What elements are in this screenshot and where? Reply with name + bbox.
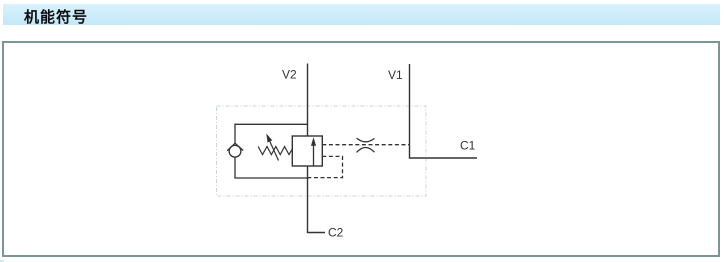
wire check-valve branch left lower [234,157,236,178]
enclosure (dash-dot assembly boundary) [217,106,427,196]
wire V2 lower to C2 elbow [308,166,326,233]
spring (adjustable) [258,147,292,155]
adjustment arrow through spring [269,140,278,160]
pilot line (dashed) valve to V1 [322,144,409,146]
orifice / throttle upper arc [357,138,375,142]
header bar 机能符号 [3,4,720,25]
svg-text:C2: C2 [328,226,344,240]
flow-path arrow inside valve [313,145,315,167]
pilot feedback line (dashed) [308,156,343,177]
check valve seat [227,143,243,150]
check valve ball [229,145,241,157]
wire check-valve branch left upper [234,124,236,144]
wire V1 to C1 [410,64,478,158]
svg-text:C1: C1 [460,139,476,153]
orifice / throttle lower arc [357,147,375,152]
svg-text:V2: V2 [282,68,297,82]
valve body (counterbalance valve square) [292,136,322,166]
wire check-valve branch bottom [234,177,308,179]
wire check-valve branch top [235,123,308,125]
svg-text:V1: V1 [388,68,403,82]
wire V2 upper segment [307,64,309,137]
